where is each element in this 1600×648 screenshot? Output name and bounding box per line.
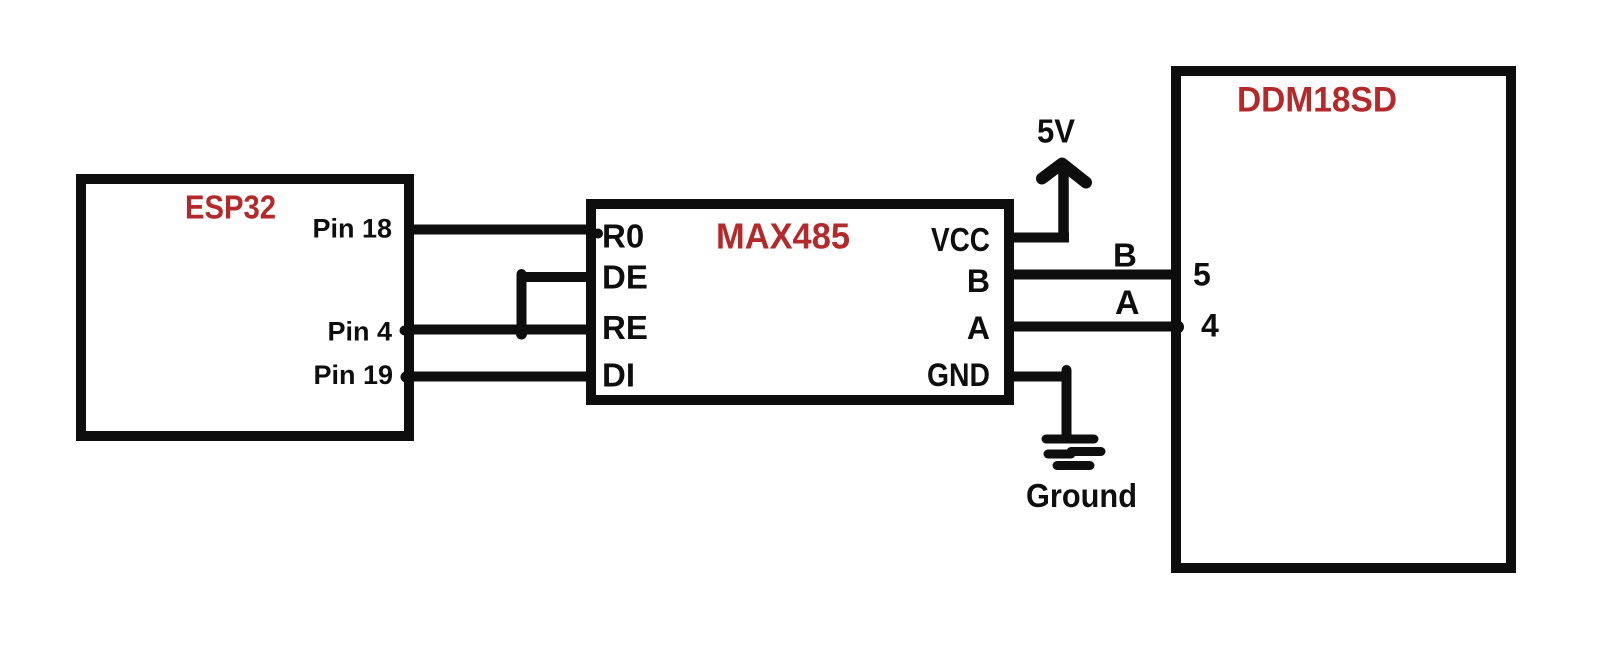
node dot Pin 4 <box>400 326 410 336</box>
node nub R0 <box>593 229 603 239</box>
svg-text:R0: R0 <box>602 218 644 255</box>
ground symbol bar 2 right <box>1071 447 1101 456</box>
MAX485 box U2 <box>591 204 1009 400</box>
ESP32 box U1 <box>81 179 409 436</box>
5V supply arrow head <box>1042 164 1086 183</box>
svg-text:B: B <box>1113 237 1137 274</box>
svg-text:RE: RE <box>602 309 648 346</box>
svg-text:B: B <box>967 263 990 299</box>
ground symbol bar 2 left <box>1048 450 1071 459</box>
wire VCC horizontal <box>1009 233 1069 243</box>
svg-text:DDM18SD: DDM18SD <box>1237 81 1397 120</box>
svg-text:MAX485: MAX485 <box>716 216 850 257</box>
ground symbol bar 3 <box>1057 461 1090 470</box>
svg-text:DE: DE <box>602 259 648 296</box>
wire GND horizontal <box>1009 372 1068 382</box>
svg-text:ESP32: ESP32 <box>185 189 276 226</box>
wire DE horizontal segment <box>521 272 591 282</box>
svg-text:Ground: Ground <box>1026 477 1137 514</box>
wire Pin19 to DI <box>404 372 591 382</box>
svg-text:Pin 18: Pin 18 <box>312 214 392 244</box>
wire A to pin 4 <box>1009 322 1172 332</box>
svg-text:A: A <box>1115 284 1140 322</box>
svg-text:5: 5 <box>1193 257 1211 293</box>
DDM18SD box U3 <box>1176 71 1511 568</box>
svg-text:GND: GND <box>927 357 990 393</box>
svg-text:4: 4 <box>1201 308 1219 344</box>
node dot Pin 19 <box>401 372 412 383</box>
ground symbol bar 1 <box>1046 435 1094 444</box>
wire Pin4 to RE <box>404 325 591 335</box>
svg-text:VCC: VCC <box>931 221 990 258</box>
svg-text:DI: DI <box>602 357 635 394</box>
junction dot DE-RE on Pin4 wire <box>516 329 527 340</box>
svg-text:Pin 19: Pin 19 <box>313 360 393 390</box>
node dot pin 4 of DDM18SD <box>1171 321 1184 334</box>
wire DE-RE vertical segment <box>517 274 527 330</box>
svg-text:5V: 5V <box>1037 113 1075 150</box>
wire B to pin 5 <box>1009 270 1176 280</box>
wire Pin18 to R0 <box>410 225 591 235</box>
svg-text:A: A <box>967 310 990 346</box>
wire GND vertical drop <box>1062 370 1072 438</box>
svg-text:Pin 4: Pin 4 <box>327 317 392 347</box>
wire VCC vertical riser <box>1058 167 1069 237</box>
